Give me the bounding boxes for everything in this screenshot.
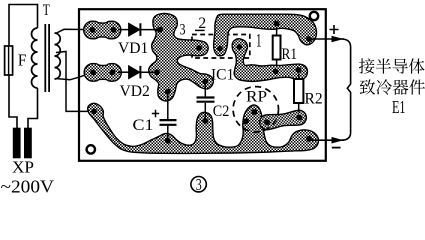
svg-text:3: 3 [196, 175, 202, 194]
potentiometer RP dashed circle [233, 87, 278, 132]
solder dot middle pad left [90, 70, 96, 76]
solder dot IC pin2 [217, 46, 223, 52]
solder dot center tap pad [91, 109, 97, 115]
svg-text:C1: C1 [133, 117, 154, 134]
pad dog-bone top (VD1 input) [84, 21, 121, 39]
solder dot C1 bottom [165, 138, 171, 144]
solder dot + output [306, 36, 312, 42]
fuse F [5, 46, 13, 75]
svg-text:IC1: IC1 [211, 67, 234, 84]
svg-text:VD1: VD1 [118, 40, 148, 57]
solder dot R1 bottom [273, 69, 279, 75]
wire secondary top tap [56, 29, 93, 33]
svg-text:E1: E1 [392, 97, 406, 117]
solder dot middle pad right [110, 69, 116, 75]
svg-text:~200V: ~200V [1, 177, 55, 197]
transformer secondary winding [55, 33, 61, 79]
label line 2: zhi leng qi jian [360, 79, 425, 95]
plug XP prong 1 [14, 129, 20, 158]
pad dog-bone R2 bottom to RP [259, 109, 308, 130]
C1 polarity + [152, 110, 159, 117]
PCB board outline [79, 9, 326, 161]
brace to load [342, 39, 351, 140]
solder dot IC pin3 [196, 45, 202, 51]
pin 2 underline [195, 29, 205, 31]
svg-text:1: 1 [256, 32, 262, 52]
wire top pad to VD1 [118, 29, 129, 31]
solder dot VD1 cathode [157, 27, 163, 33]
svg-text:C2: C2 [213, 103, 230, 120]
solder dot R2 bottom [296, 115, 302, 121]
wire mains loop right side [28, 88, 38, 129]
solder dot RP left [243, 118, 249, 124]
wire middle pad to VD2 [118, 71, 129, 73]
capacitor C2 leads [204, 82, 206, 121]
solder dot C2 bottom [202, 118, 208, 124]
wire VD1 to central pour [140, 29, 160, 31]
resistor R2 [294, 79, 303, 103]
solder dot C2 top [202, 79, 208, 85]
copper pour mid band (pin1 / R1 / R2) [232, 39, 307, 82]
svg-text:2: 2 [198, 15, 206, 32]
label line 1: jie ban dao ti [359, 58, 425, 73]
wire mains loop left side [9, 5, 38, 129]
transformer T primary winding [32, 28, 38, 88]
capacitor C1 plates [160, 120, 177, 125]
IC1 dashed outline [192, 35, 250, 59]
svg-text:R2: R2 [305, 91, 323, 108]
mounting hole bottom left [87, 145, 95, 153]
svg-text:XP: XP [12, 157, 34, 176]
capacitor C2 plates [197, 98, 215, 102]
solder dot IC pin1 [236, 44, 242, 50]
svg-text:RP: RP [246, 89, 267, 106]
plug XP prong 2 [25, 129, 31, 158]
pad dog-bone middle (VD2 input) [84, 64, 121, 82]
diode VD2 [129, 66, 139, 78]
transformer core [45, 24, 49, 92]
arrowhead - output [332, 137, 344, 144]
svg-text:R1: R1 [282, 46, 298, 63]
wire + output [309, 38, 344, 40]
arrowhead + output [332, 36, 344, 43]
label + [330, 25, 339, 34]
wire VD2 to central pour [140, 71, 157, 73]
mounting hole top right [310, 12, 318, 20]
wire - output [309, 139, 344, 141]
capacitor C1 leads [167, 92, 169, 141]
solder dot RP right [264, 119, 270, 125]
wire secondary bottom tap [56, 73, 93, 80]
solder dot top pad left [90, 27, 96, 33]
wire secondary center tap [56, 52, 94, 112]
copper pour bottom (negative rail) [88, 103, 319, 153]
resistor R1 [273, 36, 281, 60]
solder dot - output [306, 136, 312, 142]
node label circled 3 [191, 177, 206, 192]
solder dot R2 top [296, 67, 302, 73]
svg-text:F: F [18, 51, 27, 70]
svg-text:3: 3 [180, 22, 186, 39]
label - [332, 147, 341, 149]
diode VD1 [129, 24, 139, 36]
solder dot VD2 cathode [154, 69, 160, 75]
solder dot C1 top [165, 89, 171, 95]
solder dot RP wiper top [252, 109, 258, 115]
solder dot top pad right [111, 27, 117, 33]
copper pour top band (IC pin2 / + output) [214, 14, 317, 56]
svg-text:T: T [43, 2, 50, 19]
solder dot R1 top [274, 21, 280, 27]
copper pour central (rectifier output node) [149, 14, 213, 101]
svg-text:VD2: VD2 [120, 83, 150, 100]
